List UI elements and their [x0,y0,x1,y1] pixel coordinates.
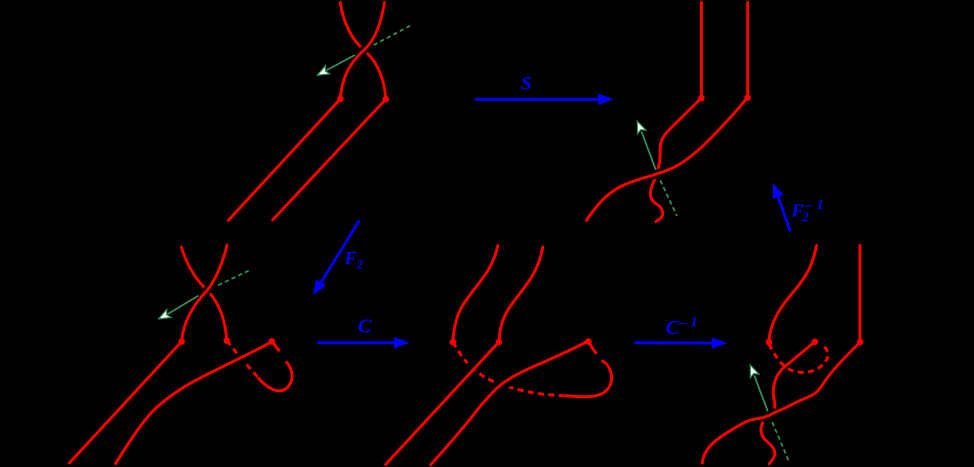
red parallel line from right dot [273,99,386,220]
arrow C head [394,337,409,348]
svg-text:2: 2 [802,210,809,224]
green isotopy arrow [750,365,789,461]
red parallel line from middle dot [386,342,499,464]
red parallel line from left dot [228,99,340,221]
red over-strand: top-right to left dot [182,245,227,341]
red vertical strand into right dot [858,245,861,341]
arrow F2-1 shaft [778,197,790,232]
red loop stub at right dot [272,341,280,351]
red vertical strand right [746,3,749,98]
dot fig5 left [766,339,773,346]
arrow F2 head [313,279,326,295]
red dashed loop part (passes behind) from middle dot [227,341,258,378]
arrow S shaft [475,98,600,101]
svg-text:–: – [679,316,687,331]
dot fig3 middle [224,337,231,344]
red smooth strand from right dot [116,342,272,464]
svg-text:C: C [666,317,680,339]
dot fig1 left [337,96,344,103]
dot fig4 middle [496,339,503,346]
red under-strand: top-left to right dot [340,3,385,99]
arrow S head [598,94,613,105]
crossing gap [762,412,777,419]
arrow C shaft [317,341,396,344]
dot fig1 right [383,96,390,103]
red right top strand into middle dot [499,247,543,341]
dot fig2 left [698,95,705,102]
red dashed loop arc from left dot (behind strands) [453,342,565,396]
green isotopy arrow [159,271,249,319]
dot fig4 right [585,338,592,345]
crossing gap [200,284,214,297]
red smooth over-strand from right dot [587,98,748,221]
red left top strand into left dot [453,246,498,342]
dot fig5 middle [812,339,819,346]
dot fig3 right [269,338,276,345]
red dashed small loop from left dot to middle dot [769,344,828,372]
crossing gap [357,43,372,56]
red vertical strand left [700,3,703,98]
svg-text:1: 1 [817,198,824,213]
arrow F2 shaft [321,220,360,282]
red solid loop arc [258,361,292,391]
red parallel line from left dot [69,342,181,463]
red loop stub at right dot [589,342,597,354]
svg-text:S: S [521,74,532,95]
dot fig5 right [857,339,864,346]
crossing gap [650,171,665,176]
red wiggly strand from middle dot (under) [761,342,815,464]
red under-strand: top-left to middle dot [182,247,227,340]
svg-text:1: 1 [691,316,698,331]
red wiggly strand from left dot (under) [650,98,701,222]
arrow F2-1 head [773,183,784,199]
svg-text:C: C [358,316,372,338]
red solid loop arc right part [565,360,612,396]
red smooth strand from right dot [431,341,589,465]
red over-strand: top-right to left dot [340,3,384,99]
gap: smooth strand over dashed arc [497,379,512,390]
dot fig3 left [178,338,185,345]
dot fig2 right [744,94,751,101]
gap: middle-dot line over dashed arc [465,361,477,373]
green isotopy arrow (dashed tail, solid head side) [317,26,410,75]
green isotopy arrow (solid to tip up, dashed tail down) [637,121,677,216]
red left top strand into left dot [769,245,817,341]
gap where smooth strand covers dashed loop [234,355,250,363]
arrow C-1 shaft [634,341,713,344]
arrow C-1 head [712,337,727,348]
dot fig4 left [450,339,457,346]
red smooth over-strand from right dot [702,342,860,463]
